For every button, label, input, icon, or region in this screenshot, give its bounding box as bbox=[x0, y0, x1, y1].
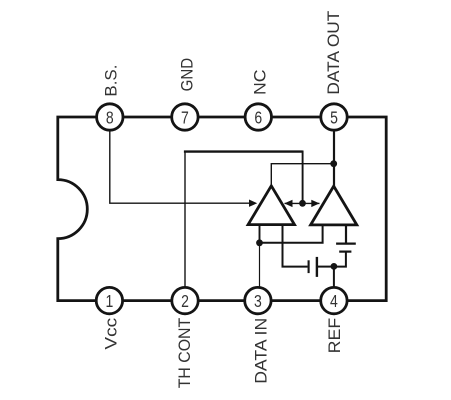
svg-text:DATA IN: DATA IN bbox=[251, 318, 270, 384]
wire node to pin4 REF bbox=[333, 266, 335, 294]
wire TH CONT drop to input node bbox=[302, 151, 304, 204]
wire C1 to REF node bbox=[318, 266, 334, 268]
svg-text:5: 5 bbox=[330, 107, 338, 127]
arrowhead into U1 right edge bbox=[284, 200, 292, 207]
wire C2 to REF node bbox=[334, 252, 346, 267]
pin 1 circle bbox=[96, 287, 122, 313]
svg-text:2: 2 bbox=[181, 291, 189, 311]
wire U2 right leg bbox=[345, 224, 347, 243]
svg-text:NC: NC bbox=[250, 70, 269, 96]
svg-text:3: 3 bbox=[254, 291, 262, 311]
pin 7 circle bbox=[172, 104, 198, 130]
op-amp U1 bbox=[248, 186, 294, 225]
svg-text:1: 1 bbox=[106, 291, 114, 311]
wire node to U2 left leg bbox=[260, 224, 323, 243]
wire node to pin3 DATA IN bbox=[259, 243, 261, 294]
svg-text:TH CONT: TH CONT bbox=[175, 318, 194, 389]
node junction dot on DATA OUT riser bbox=[330, 160, 337, 167]
pin 3 circle bbox=[245, 287, 271, 313]
wire pin8 B.S. to comparator input bbox=[110, 125, 250, 203]
node junction dot between arrows bbox=[299, 200, 306, 207]
svg-text:8: 8 bbox=[106, 107, 114, 127]
wire pin2 TH CONT riser bbox=[184, 152, 186, 294]
svg-text:6: 6 bbox=[254, 107, 262, 127]
capacitor C2 top plate bbox=[336, 243, 356, 245]
svg-text:REF: REF bbox=[325, 318, 344, 354]
wire U1 output to DATA OUT riser bbox=[271, 164, 333, 187]
svg-text:Vcc: Vcc bbox=[102, 317, 121, 349]
wire TH CONT horizontal run bbox=[184, 150, 303, 152]
svg-text:DATA OUT: DATA OUT bbox=[324, 11, 343, 95]
capacitor C2 bottom plate bbox=[339, 251, 351, 253]
pin 4 circle bbox=[321, 287, 347, 313]
node junction dot under U1 bbox=[256, 239, 263, 246]
IC package outline with index notch bbox=[58, 117, 386, 301]
pin 5 circle bbox=[321, 104, 347, 130]
node junction dot REF bbox=[331, 263, 338, 270]
capacitor C1 left plate bbox=[308, 260, 310, 273]
wire U1 left leg bbox=[259, 224, 261, 243]
svg-text:B.S.: B.S. bbox=[101, 65, 120, 97]
svg-text:GND: GND bbox=[178, 58, 197, 92]
wire between comparator inputs bbox=[285, 202, 320, 204]
pin 2 circle bbox=[172, 287, 198, 313]
arrowhead into U2 left edge bbox=[311, 200, 319, 207]
svg-text:4: 4 bbox=[330, 291, 338, 311]
op-amp U2 bbox=[311, 186, 357, 225]
wire pin5 DATA OUT riser bbox=[333, 124, 335, 187]
wire U1 right leg down and left plate lead bbox=[283, 224, 308, 267]
arrowhead into U1 left edge bbox=[249, 200, 257, 207]
svg-text:7: 7 bbox=[181, 107, 189, 127]
capacitor C1 right plate bbox=[316, 257, 318, 277]
pin 8 circle bbox=[97, 104, 123, 130]
pin 6 circle bbox=[245, 104, 271, 130]
